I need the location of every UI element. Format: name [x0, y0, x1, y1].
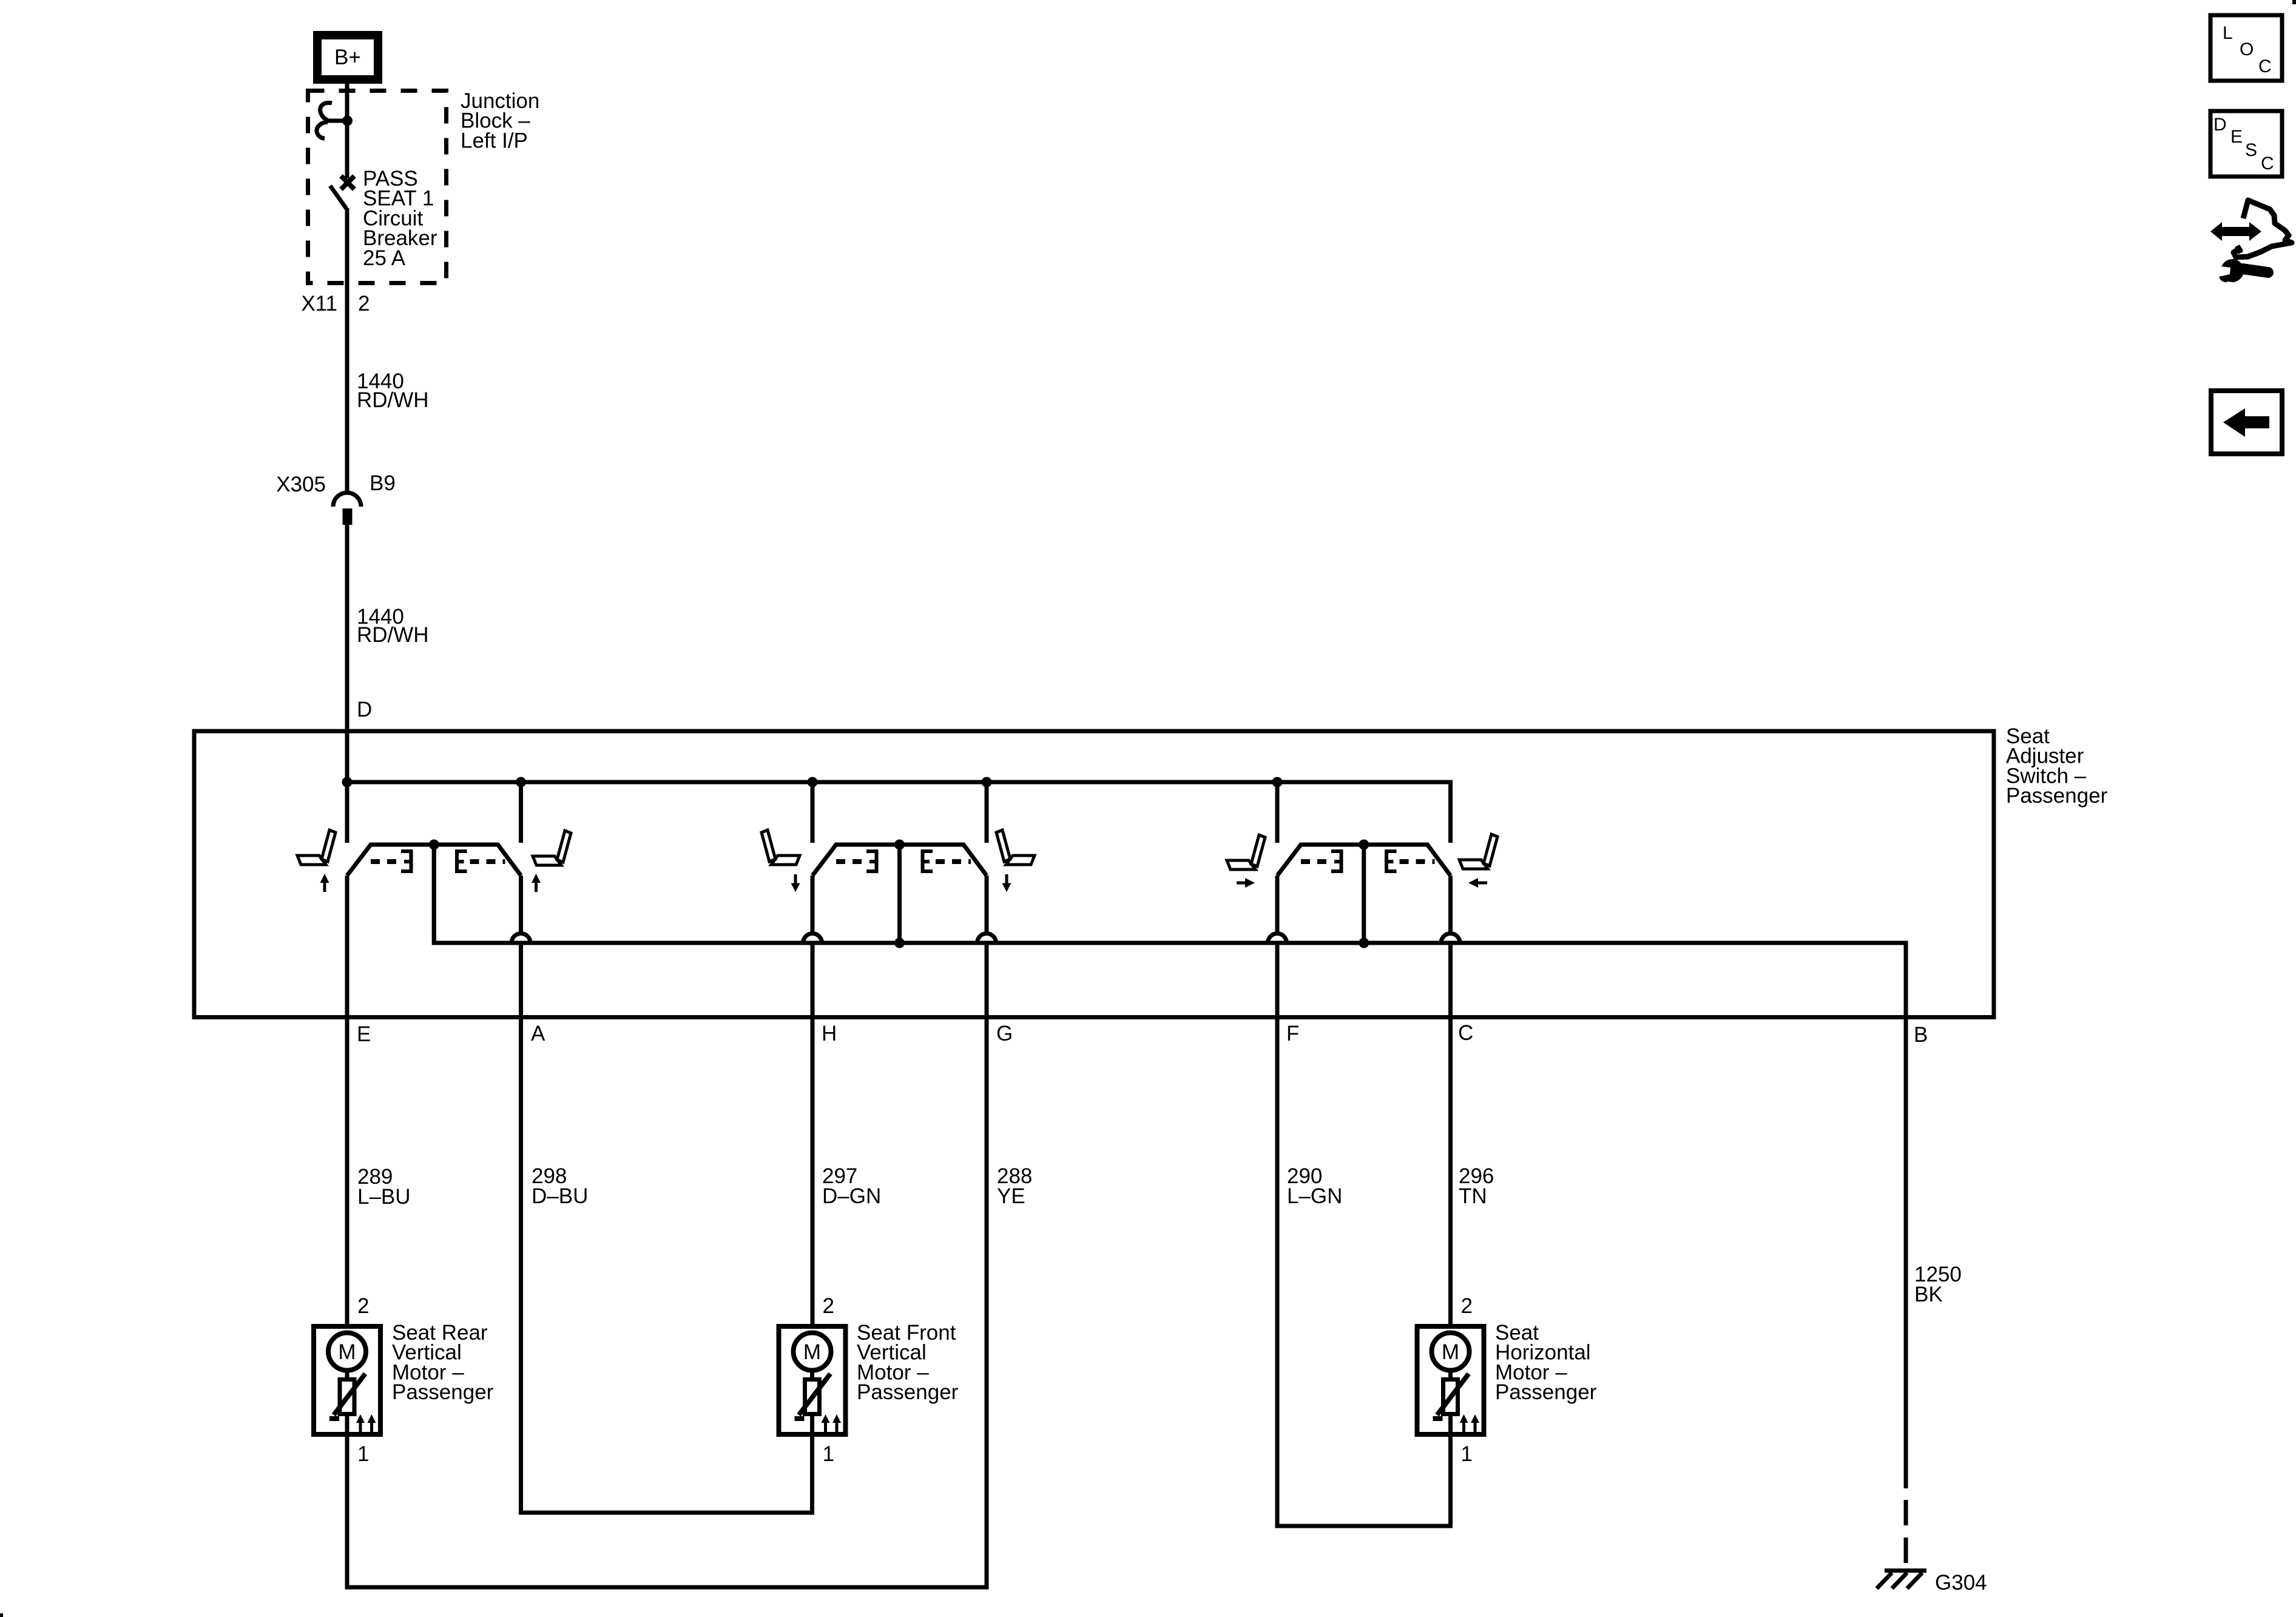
B+ feed bus inside switch	[347, 782, 1451, 843]
link line junction dots (rockers 2 and 3)	[894, 938, 1369, 948]
seat adjuster switch box outline	[194, 731, 1994, 1018]
wire: breaker to connector X305	[345, 208, 349, 492]
switch rocker rear vertical (E/A): common wire to link	[432, 845, 436, 943]
svg-text:L–GN: L–GN	[1287, 1184, 1342, 1208]
svg-text:RD/WH: RD/WH	[357, 388, 429, 412]
switch rocker front vertical (H/G): common wire to link	[897, 845, 902, 943]
switch rocker front vertical (H/G): left contact bracket	[866, 849, 877, 873]
wire label 296 TN	[1459, 1164, 1494, 1208]
switch rocker front vertical (H/G): trapezoid	[812, 845, 987, 876]
svg-text:TN: TN	[1459, 1184, 1487, 1208]
svg-text:G304: G304	[1935, 1571, 1987, 1595]
switch rocker horizontal (F/C): trapezoid	[1277, 845, 1451, 876]
svg-text:X305: X305	[276, 473, 326, 496]
svg-text:25 A: 25 A	[363, 246, 406, 270]
wire label 1440 RD/WH (upper)	[357, 370, 429, 412]
page corner mark top-right	[2292, 0, 2296, 4]
icon: LOC page link box	[2210, 15, 2282, 81]
wire terminal G down and over to motor 1 pin 1	[347, 943, 987, 1587]
svg-text:B+: B+	[334, 46, 361, 69]
wire hop arches over A H G F C	[512, 934, 1460, 944]
wire label 1250 BK	[1914, 1263, 1962, 1306]
ground G304 symbol	[1877, 1571, 1926, 1589]
switch rocker rear vertical (E/A): dashed contact lines	[371, 859, 505, 864]
svg-text:C: C	[2258, 56, 2272, 76]
svg-text:M: M	[338, 1340, 356, 1364]
switch rocker front vertical (H/G): right contact bracket	[923, 849, 933, 873]
wire label 298 D-BU	[532, 1164, 588, 1208]
switch rocker rear vertical (E/A): common contact dot	[429, 840, 439, 850]
motor label M2 seat front vertical	[857, 1321, 959, 1404]
junction block label	[461, 89, 539, 152]
seat icon: rear down, left (mirrored)	[761, 830, 800, 865]
motor label M3 seat horizontal	[1495, 1321, 1597, 1404]
wire: B+ to circuit breaker	[345, 84, 349, 178]
icon: harness hotlink (double arrow, harness outline, wrench)	[2210, 200, 2292, 282]
switch rocker rear vertical (E/A): trapezoid	[347, 845, 521, 876]
wire terminal H upper segment	[811, 876, 815, 934]
seat adjuster switch label	[2006, 724, 2108, 808]
seat icon: rear up, right	[533, 831, 571, 865]
switch rocker horizontal (F/C): dashed contact lines	[1301, 859, 1435, 864]
bus stub wires down to switch contacts	[347, 782, 1277, 843]
connector label X11 pin 2	[301, 292, 370, 316]
switch rocker rear vertical (E/A): right contact bracket	[457, 849, 467, 873]
svg-text:2: 2	[358, 292, 370, 316]
svg-text:O: O	[2240, 39, 2254, 59]
arrow down (seat rear down, right)	[1002, 874, 1011, 892]
wire terminal C upper segment	[1448, 876, 1453, 934]
switch rocker rear vertical (E/A): left contact bracket	[401, 849, 411, 873]
switch rocker horizontal (F/C): common contact dot	[1359, 840, 1369, 850]
svg-text:S: S	[2245, 140, 2257, 160]
circuit breaker label	[363, 167, 437, 270]
motor M2 seat front vertical	[779, 1326, 846, 1439]
wire label 1440 RD/WH (lower)	[357, 605, 429, 647]
svg-text:C: C	[2261, 154, 2274, 174]
wire terminal C down to motor 3	[1448, 943, 1453, 1324]
svg-text:1: 1	[823, 1442, 834, 1466]
wire label 288 YE	[997, 1164, 1032, 1208]
motor M3 seat horizontal	[1417, 1326, 1484, 1439]
svg-text:G: G	[996, 1022, 1013, 1045]
motor label M1 seat rear vertical	[392, 1321, 494, 1404]
arrow right (seat forward)	[1237, 878, 1255, 888]
arrow up (seat rear up, left)	[320, 874, 329, 892]
switch rocker horizontal (F/C): right contact bracket	[1386, 849, 1397, 873]
switch rocker horizontal (F/C): common wire to link	[1362, 845, 1366, 943]
svg-text:1: 1	[1461, 1442, 1473, 1466]
svg-text:BK: BK	[1914, 1283, 1943, 1306]
wire terminal A upper segment	[519, 876, 523, 934]
svg-text:D–GN: D–GN	[822, 1184, 881, 1208]
svg-text:RD/WH: RD/WH	[357, 623, 429, 647]
svg-text:H: H	[822, 1022, 837, 1045]
switch rocker front vertical (H/G): dashed contact lines	[836, 859, 971, 864]
seat icon: rear up, left	[297, 830, 336, 865]
svg-text:L: L	[2223, 23, 2233, 43]
seat icon: horizontal fwd, left	[1227, 835, 1265, 869]
svg-text:E: E	[357, 1022, 371, 1046]
svg-text:2: 2	[357, 1294, 369, 1318]
svg-text:Left I/P: Left I/P	[461, 129, 528, 152]
svg-text:C: C	[1458, 1021, 1473, 1045]
icon: back arrow box	[2211, 391, 2282, 454]
wire terminal H down to motor 2	[811, 943, 815, 1324]
wire label 289 L-BU	[357, 1165, 411, 1209]
svg-text:F: F	[1286, 1022, 1299, 1045]
wire: connector to switch (1440 RD/WH)	[345, 524, 349, 785]
wire terminal F upper segment	[1275, 876, 1280, 934]
svg-text:2: 2	[1461, 1294, 1473, 1318]
svg-text:X11: X11	[301, 292, 337, 316]
svg-text:M: M	[1442, 1340, 1459, 1364]
switch rocker horizontal (F/C): left contact bracket	[1331, 849, 1342, 873]
arrow up (seat rear up, right)	[532, 874, 541, 892]
wire label 297 D-GN	[822, 1164, 881, 1208]
svg-text:B9: B9	[370, 471, 396, 495]
svg-text:1: 1	[357, 1442, 369, 1466]
svg-text:Passenger: Passenger	[392, 1380, 494, 1404]
wire terminal G upper segment	[985, 876, 989, 934]
svg-text:E: E	[2230, 127, 2243, 147]
motor M1 seat rear vertical	[314, 1326, 380, 1439]
seat icon: rear down, right (mirrored)	[996, 830, 1035, 865]
icon: DESC page link box	[2210, 111, 2282, 177]
wire terminal A down and over to motor 2 pin 1	[521, 943, 812, 1513]
switch common link line to terminal B	[434, 845, 1906, 1488]
svg-text:YE: YE	[997, 1184, 1025, 1208]
junction block dashed box (Junction Block - Left I/P)	[308, 91, 447, 283]
svg-text:D: D	[357, 698, 372, 721]
circuit breaker PASS SEAT 1 25 A	[317, 103, 354, 209]
page corner mark bottom-left	[0, 1613, 3, 1617]
svg-text:Passenger: Passenger	[1495, 1380, 1597, 1404]
svg-text:D–BU: D–BU	[532, 1184, 588, 1208]
svg-text:Passenger: Passenger	[857, 1380, 959, 1404]
svg-text:Passenger: Passenger	[2006, 784, 2108, 808]
switch rocker front vertical (H/G): common contact dot	[894, 840, 905, 850]
seat icon: horizontal back, right	[1459, 834, 1497, 869]
svg-text:L–BU: L–BU	[357, 1185, 411, 1209]
arrow left (seat rearward)	[1468, 878, 1487, 888]
svg-text:D: D	[2213, 115, 2227, 135]
battery feed B+ terminal box	[317, 35, 378, 79]
svg-text:B: B	[1914, 1023, 1928, 1047]
svg-text:A: A	[531, 1022, 545, 1045]
in-line connector X305 terminal B9	[333, 493, 361, 525]
wire label 290 L-GN	[1287, 1164, 1342, 1208]
wire terminal E down to motor 1	[345, 876, 349, 1324]
svg-text:M: M	[803, 1340, 821, 1364]
wire 1250 BK dashed segment to ground	[1904, 1500, 1908, 1568]
svg-text:2: 2	[823, 1294, 834, 1318]
wire terminal F down and over to motor 3 pin 1	[1277, 943, 1451, 1526]
connector labels X305 / B9	[276, 471, 396, 496]
arrow down (seat rear down, left)	[791, 874, 800, 892]
bus junction dots	[342, 777, 1283, 788]
